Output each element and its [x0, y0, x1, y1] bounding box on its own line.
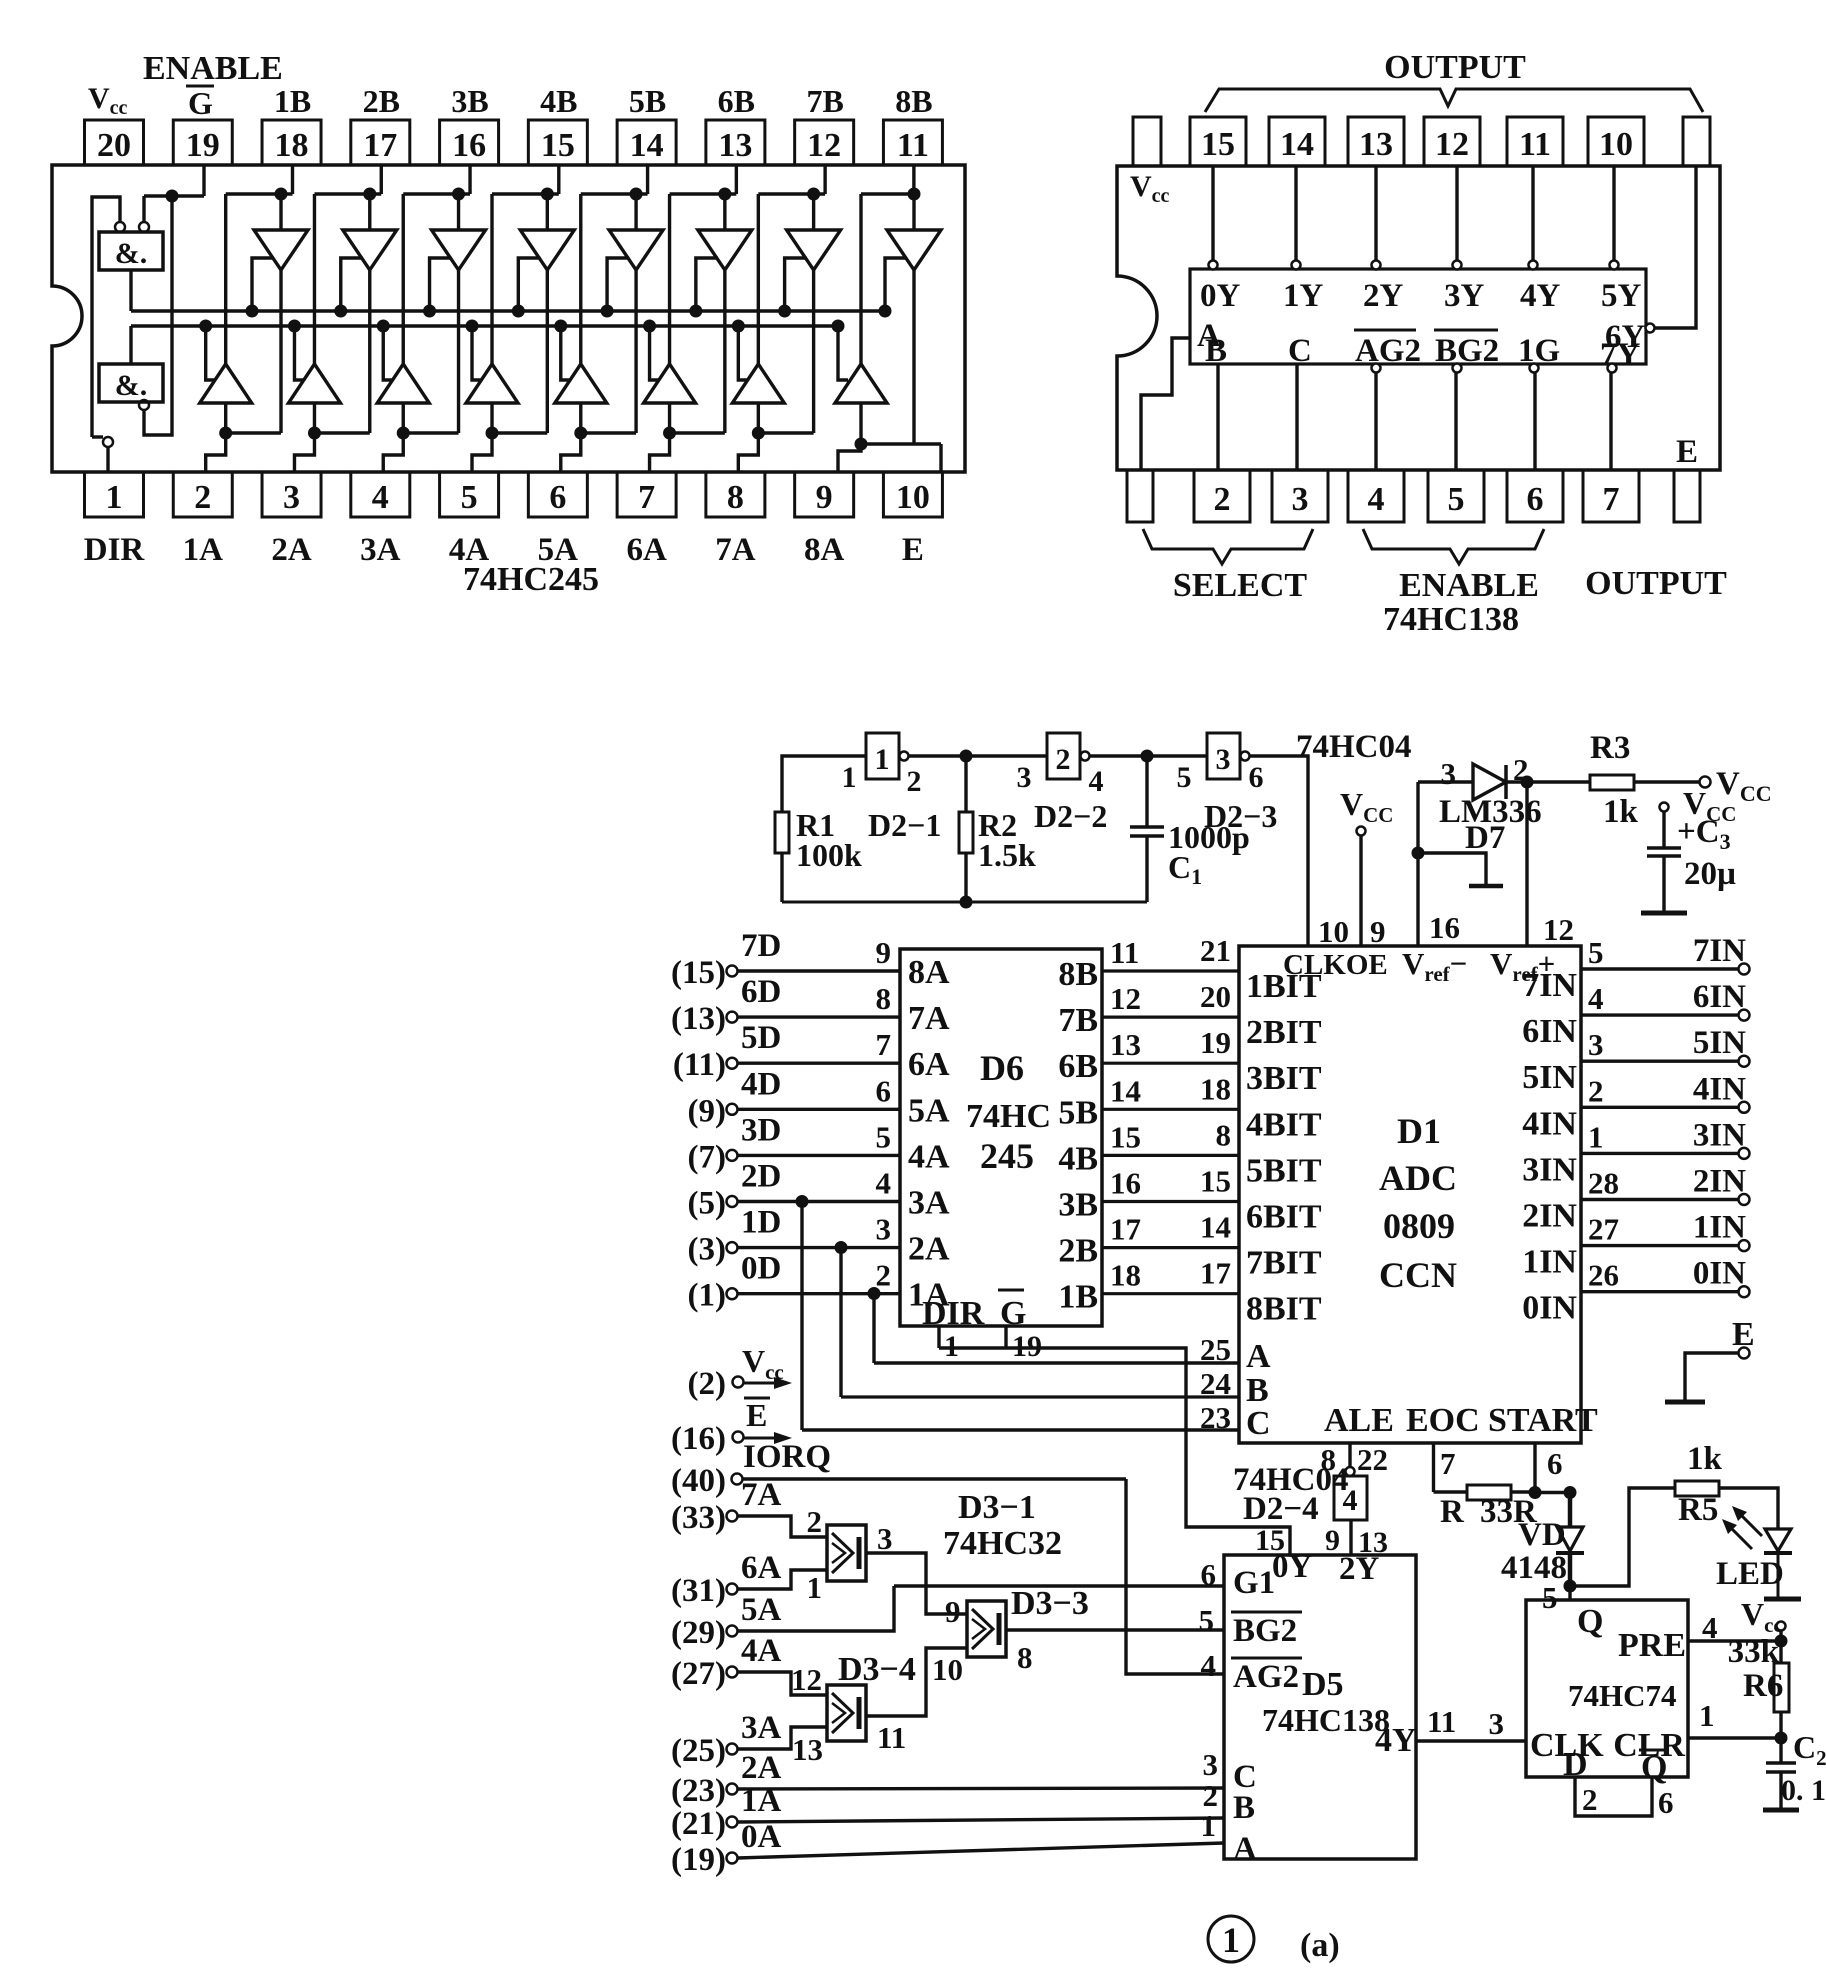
bubble output 5Y: [1610, 261, 1619, 270]
svg-text:5: 5: [1199, 1603, 1215, 1638]
bubble lower AND bottom input: [139, 400, 149, 410]
buffer A-to-B triangle cell 1: [224, 194, 227, 364]
svg-text:33k: 33k: [1728, 1634, 1780, 1670]
buffer B-to-A triangle cell 5: [634, 194, 637, 230]
svg-text:2: 2: [1214, 481, 1231, 518]
wire D5 BG2 pin 5 from D3-3: [1007, 1628, 1224, 1632]
svg-text:1k: 1k: [1603, 794, 1639, 830]
svg-text:13: 13: [718, 127, 752, 164]
wire ADC A pin 25 to 0D: [874, 1361, 1239, 1364]
node A junction cell 2: [308, 427, 321, 440]
node 2D junction: [796, 1195, 809, 1208]
wire lower AND to enable bus 2: [129, 326, 132, 364]
terminal (5) data line 2D: [727, 1196, 738, 1207]
74HC138 top pin stub 9: [1683, 117, 1710, 166]
svg-text:Q: Q: [1577, 1603, 1603, 1640]
wire bottom buffer enable stub cell 6: [650, 326, 660, 380]
wire G-bar to upper AND gate bubble: [142, 196, 145, 222]
svg-text:7: 7: [638, 479, 655, 516]
brace ENABLE pins 4-6: [1363, 529, 1544, 564]
svg-text:5A: 5A: [741, 1592, 782, 1628]
74HC138 bottom pin box 4: [1348, 470, 1404, 522]
svg-text:8B: 8B: [895, 83, 932, 119]
svg-text:16: 16: [1110, 1166, 1141, 1201]
svg-text:11: 11: [1427, 1704, 1456, 1739]
inverter D2-1 (74HC04 gate 1): [866, 733, 899, 779]
svg-text:74HC: 74HC: [966, 1098, 1051, 1135]
wire PRE pin 4: [1688, 1639, 1781, 1642]
svg-text:5: 5: [876, 1119, 892, 1154]
resistor R5 1k: [1675, 1481, 1719, 1496]
svg-text:DIR: DIR: [84, 532, 146, 568]
svg-text:1Y: 1Y: [1283, 278, 1324, 314]
node bottom rail R2 junction: [960, 896, 973, 909]
svg-text:18: 18: [1200, 1071, 1231, 1106]
terminal Vcc for C3: [1660, 803, 1669, 812]
svg-text:74HC32: 74HC32: [943, 1525, 1062, 1562]
wire output 4Y to pin: [1531, 166, 1534, 261]
wire D6 7B pin 12 to ADC pin 20: [1102, 1015, 1239, 1018]
wire oscillator bottom rail: [782, 901, 1147, 904]
wire 6D to D6 7A pin 8: [738, 1015, 901, 1018]
svg-text:5: 5: [1588, 935, 1604, 970]
svg-text:ADC: ADC: [1379, 1158, 1457, 1198]
svg-text:8A: 8A: [804, 532, 845, 568]
node 0D junction: [868, 1287, 881, 1300]
74HC138 bottom pin stub 1: [1127, 470, 1153, 522]
terminal (27) address line 4A: [727, 1667, 738, 1678]
wire top buffer output cell 4: [546, 270, 549, 433]
svg-text:3: 3: [876, 1212, 892, 1247]
svg-text:&.: &.: [115, 369, 148, 402]
svg-text:26: 26: [1588, 1258, 1619, 1293]
wire ADC 5IN pin 3 to terminal: [1581, 1059, 1739, 1062]
svg-text:(2): (2): [688, 1366, 726, 1402]
buffer A-to-B triangle cell 2: [313, 194, 316, 364]
svg-text:(29): (29): [671, 1615, 726, 1651]
svg-text:17: 17: [363, 127, 397, 164]
svg-text:4A: 4A: [741, 1633, 782, 1669]
svg-text:7A: 7A: [715, 532, 756, 568]
terminal (33) address line 7A: [727, 1511, 738, 1522]
wire B select to pin 2: [1216, 364, 1219, 470]
svg-text:5B: 5B: [1058, 1094, 1098, 1131]
node A junction cell 5: [574, 427, 587, 440]
bubble 7Y bottom: [1608, 364, 1617, 373]
terminal 2IN: [1739, 1194, 1750, 1205]
node A junction cell 4: [486, 427, 499, 440]
svg-text:0Y: 0Y: [1272, 1549, 1313, 1585]
svg-text:74HC245: 74HC245: [463, 561, 599, 598]
svg-text:4A: 4A: [908, 1138, 950, 1175]
resistor R1 100k: [775, 812, 789, 853]
svg-text:20: 20: [1200, 979, 1231, 1014]
terminal Vcc OE pin 9: [1357, 827, 1366, 836]
wire DIR chain left vertical: [92, 197, 120, 437]
svg-text:12: 12: [1110, 981, 1141, 1016]
wire top jog cell 5: [581, 192, 648, 195]
wire R5 to LED: [1719, 1488, 1778, 1529]
svg-text:5: 5: [1448, 481, 1465, 518]
svg-text:4: 4: [1368, 481, 1385, 518]
bubble D2-4 input: [1346, 1467, 1355, 1476]
svg-text:(15): (15): [671, 955, 726, 991]
node VD junction 2: [1564, 1486, 1577, 1499]
figure number 1 circled: [1208, 1916, 1254, 1962]
svg-text:1: 1: [875, 743, 890, 776]
svg-text:9: 9: [816, 479, 833, 516]
resistor R 33R: [1467, 1485, 1511, 1500]
wire ADC 4IN pin 2 to terminal: [1581, 1106, 1739, 1109]
svg-text:1A: 1A: [183, 532, 224, 568]
74HC245 top pin box 18: [262, 120, 321, 165]
wire D6 3B pin 16 to ADC pin 15: [1102, 1200, 1239, 1203]
svg-text:BG2: BG2: [1435, 333, 1499, 369]
wire bottom buffer enable stub cell 5: [561, 326, 571, 380]
svg-text:74HC04: 74HC04: [1296, 729, 1412, 765]
wire D5 AG2 pin 4 from IORQ: [1126, 1479, 1224, 1674]
brace SELECT pins 1-3: [1143, 529, 1313, 564]
svg-text:3A: 3A: [908, 1185, 950, 1222]
node A junction cell 3: [397, 427, 410, 440]
svg-text:74HC138: 74HC138: [1262, 1702, 1390, 1738]
svg-text:20µ: 20µ: [1684, 856, 1736, 892]
svg-text:10: 10: [896, 479, 930, 516]
svg-text:7: 7: [1440, 1446, 1456, 1481]
wire junction link: [1535, 1491, 1570, 1494]
74HC245 bottom pin box 3: [262, 472, 321, 517]
svg-text:2A: 2A: [741, 1750, 782, 1786]
svg-text:5IN: 5IN: [1522, 1059, 1577, 1096]
svg-text:2: 2: [907, 765, 922, 798]
OR gate D3-4 74HC32: [827, 1685, 866, 1741]
wire G-bar pin 19 stub: [1004, 1326, 1007, 1348]
svg-text:(23): (23): [671, 1773, 726, 1809]
buffer B-to-A triangle cell 4: [546, 194, 549, 230]
wire B pin 13 drop cell 6: [735, 165, 738, 194]
svg-text:R: R: [1440, 1494, 1465, 1530]
svg-text:SELECT: SELECT: [1173, 567, 1307, 604]
terminal (19) address line 0A: [727, 1853, 738, 1864]
wire G-bar branch to lower AND gate: [144, 196, 172, 435]
svg-text:EOC: EOC: [1406, 1402, 1480, 1439]
svg-text:G: G: [1000, 1295, 1026, 1332]
svg-text:4B: 4B: [540, 83, 577, 119]
buffer A-to-B triangle cell 6: [668, 194, 671, 364]
terminal (21) address line 1A: [727, 1817, 738, 1828]
svg-text:2IN: 2IN: [1693, 1164, 1746, 1200]
svg-text:13: 13: [792, 1732, 823, 1767]
wire 4D to D6 5A pin 6: [738, 1108, 901, 1111]
svg-text:2A: 2A: [908, 1231, 950, 1268]
bubble output 3Y: [1453, 261, 1462, 270]
buffer B-to-A triangle cell 1: [279, 194, 282, 230]
wire bottom buffer enable stub cell 3: [383, 326, 393, 380]
74HC245 top pin box 14: [617, 120, 676, 165]
svg-text:(40): (40): [671, 1463, 726, 1499]
wire CLR pin 1: [1688, 1736, 1781, 1739]
svg-text:4: 4: [1588, 981, 1604, 1016]
svg-text:IORQ: IORQ: [743, 1439, 831, 1475]
wire top buffer enable stub cell 2: [341, 258, 363, 311]
node Q junction: [1564, 1580, 1577, 1593]
wire 3D to D6 4A pin 5: [738, 1154, 901, 1157]
svg-text:23: 23: [1200, 1400, 1231, 1435]
wire bottom buffer enable stub cell 1: [206, 326, 216, 380]
svg-text:PRE: PRE: [1618, 1627, 1686, 1664]
wire DIR pin 1 stub: [937, 1326, 940, 1348]
wire D2-1 output to D2-2 input: [908, 754, 1047, 757]
wire D6 8B pin 11 to ADC pin 21: [1102, 969, 1239, 972]
svg-text:12: 12: [1543, 912, 1574, 947]
wire top jog cell 7: [758, 192, 825, 195]
svg-text:14: 14: [630, 127, 664, 164]
svg-text:5: 5: [1542, 1580, 1558, 1615]
svg-text:1IN: 1IN: [1522, 1244, 1577, 1281]
svg-text:4BIT: 4BIT: [1246, 1106, 1322, 1143]
svg-text:10: 10: [1318, 914, 1349, 949]
wire D2-2 output to D2-3 input: [1089, 754, 1207, 757]
terminal (16) E-bar: [733, 1432, 744, 1443]
wire output 5Y to pin: [1612, 166, 1615, 261]
node B junction cell 2: [363, 188, 376, 201]
wire B pin 18 drop cell 1: [291, 165, 294, 194]
wire top buffer output cell 8: [912, 270, 915, 444]
svg-text:2IN: 2IN: [1522, 1198, 1577, 1235]
74HC138 top pin box 10: [1588, 117, 1644, 166]
svg-text:5B: 5B: [629, 83, 666, 119]
svg-text:(21): (21): [671, 1806, 726, 1842]
svg-text:D2−1: D2−1: [868, 807, 941, 843]
ground E: [1665, 1400, 1705, 1405]
svg-text:1G: 1G: [1518, 333, 1560, 369]
svg-text:8: 8: [1216, 1117, 1232, 1152]
svg-text:13: 13: [1110, 1027, 1141, 1062]
diode LM336 D7: [1418, 780, 1473, 783]
74HC138 top pin box 11: [1507, 117, 1563, 166]
svg-text:5Y: 5Y: [1601, 278, 1642, 314]
wire 5D to D6 6A pin 7: [738, 1061, 901, 1064]
svg-text:3B: 3B: [1058, 1187, 1098, 1224]
svg-text:17: 17: [1110, 1212, 1141, 1247]
svg-text:2Y: 2Y: [1363, 278, 1404, 314]
wire top jog cell 4: [492, 192, 559, 195]
inverter D2-4 (74HC04 gate 4): [1334, 1476, 1367, 1520]
wire B pin 15 drop cell 4: [557, 165, 560, 194]
ground D7: [1469, 884, 1503, 889]
svg-text:14: 14: [1200, 1210, 1231, 1245]
svg-text:(7): (7): [688, 1139, 726, 1175]
svg-text:ALE: ALE: [1324, 1402, 1394, 1439]
node B junction cell 3: [452, 188, 465, 201]
wire top buffer output cell 5: [634, 270, 637, 433]
svg-text:27: 27: [1588, 1212, 1619, 1247]
wire C1 top stem: [1145, 756, 1148, 827]
wire top buffer enable stub cell 4: [518, 258, 540, 311]
node B junction cell 1: [275, 188, 288, 201]
svg-text:2: 2: [807, 1504, 823, 1539]
bubble output 4Y: [1529, 261, 1538, 270]
node Vref+ junction: [1521, 776, 1534, 789]
wire ADC 2IN pin 28 to terminal: [1581, 1198, 1739, 1201]
svg-text:8A: 8A: [908, 954, 950, 991]
wire D5 C pin 3 from 2A: [738, 1788, 1225, 1789]
svg-text:C: C: [1288, 333, 1312, 369]
svg-text:0IN: 0IN: [1693, 1256, 1746, 1292]
svg-text:2D: 2D: [741, 1159, 781, 1195]
terminal (40) IORQ: [732, 1474, 743, 1485]
svg-text:A: A: [1233, 1831, 1257, 1867]
svg-text:3: 3: [1588, 1027, 1604, 1062]
svg-text:G: G: [188, 85, 213, 121]
wire 6Y to pin 9 stub: [1654, 166, 1696, 328]
node PRE junction: [1775, 1635, 1788, 1648]
wire top buffer output cell 7: [812, 270, 815, 433]
wire top buffer enable stub cell 6: [696, 258, 718, 311]
74HC245 bottom pin box 7: [617, 472, 676, 517]
svg-text:11: 11: [1110, 935, 1139, 970]
wire top buffer output cell 1: [279, 270, 282, 433]
svg-text:17: 17: [1200, 1256, 1231, 1291]
terminal 1IN: [1739, 1240, 1750, 1251]
wire oscillator top rail left: [782, 756, 866, 812]
svg-text:(25): (25): [671, 1733, 726, 1769]
node B junction cell 7: [807, 188, 820, 201]
svg-text:7D: 7D: [741, 928, 781, 964]
svg-text:D1: D1: [1397, 1111, 1441, 1151]
svg-text:0IN: 0IN: [1522, 1290, 1577, 1327]
svg-text:6A: 6A: [908, 1046, 950, 1083]
wire top buffer enable stub cell 1: [252, 258, 274, 311]
svg-text:3: 3: [1017, 761, 1032, 794]
svg-text:6: 6: [1547, 1446, 1563, 1481]
terminal 3IN: [1739, 1148, 1750, 1159]
wire A pin 2 jog cell 1: [224, 403, 227, 433]
wire D5 A pin 1 from 0A: [738, 1843, 1225, 1858]
wire DIR pin1 riser: [92, 435, 103, 438]
wire top jog cell 8: [861, 192, 914, 195]
wire bottom buffer enable stub cell 2: [294, 326, 304, 380]
capacitor C1 1000p: [1130, 825, 1164, 829]
bubble 1G bottom: [1530, 364, 1539, 373]
svg-text:8: 8: [727, 479, 744, 516]
74HC245 top pin box 15: [528, 120, 587, 165]
svg-text:6D: 6D: [741, 974, 781, 1010]
terminal 4IN: [1739, 1102, 1750, 1113]
wire B pin 11 drop cell 8: [912, 165, 915, 194]
wire 1G to bottom pin: [1533, 372, 1536, 470]
svg-text:5: 5: [1177, 761, 1192, 794]
node 1D junction: [835, 1241, 848, 1254]
node B junction cell 5: [630, 188, 643, 201]
svg-text:AG2: AG2: [1233, 1659, 1299, 1695]
wire R2 bottom: [964, 853, 967, 902]
buffer B-to-A triangle cell 8: [912, 194, 915, 230]
74HC245 bottom pin box 8: [706, 472, 765, 517]
wire top buffer enable stub cell 7: [785, 258, 807, 311]
svg-text:E: E: [746, 1397, 767, 1433]
svg-text:5: 5: [461, 479, 478, 516]
wire C select to pin 3: [1295, 364, 1298, 470]
terminal (15) data line 7D: [727, 966, 738, 977]
svg-text:7: 7: [876, 1027, 892, 1062]
wire D6 1B pin 18 to ADC pin 17: [1102, 1292, 1239, 1295]
wire ADC 6IN pin 4 to terminal: [1581, 1013, 1739, 1016]
wire top buffer output cell 2: [368, 270, 371, 433]
svg-text:D2−3: D2−3: [1204, 798, 1277, 834]
74HC138 top pin box 14: [1269, 117, 1325, 166]
svg-text:2: 2: [1588, 1073, 1604, 1108]
svg-text:8: 8: [1017, 1640, 1033, 1675]
svg-text:ENABLE: ENABLE: [1399, 567, 1539, 604]
wire output 1Y to pin: [1294, 166, 1297, 261]
svg-text:5IN: 5IN: [1693, 1025, 1746, 1061]
node A junction cell 6: [663, 427, 676, 440]
bubble upper AND right input: [139, 222, 149, 232]
svg-text:(16): (16): [671, 1421, 726, 1457]
node EOC-START junction 1: [1529, 1486, 1542, 1499]
74HC138 top pin stub 16: [1133, 117, 1161, 166]
wire D5 G1 pin 6 from 5A: [894, 1584, 1224, 1587]
terminal (31) address line 6A: [727, 1584, 738, 1595]
wire A pin 8 jog cell 7: [757, 403, 760, 433]
svg-text:3: 3: [877, 1521, 893, 1556]
buffer A-to-B triangle cell 8: [859, 194, 862, 364]
svg-text:D7: D7: [1465, 820, 1505, 856]
wire D7 ground branch: [1418, 853, 1486, 884]
wire ADC 1IN pin 27 to terminal: [1581, 1244, 1739, 1247]
wire D3-4 output pin 11 to D3-3 pin 10: [866, 1648, 967, 1716]
LED diode: [1765, 1529, 1791, 1551]
wire upper AND output to enable bus 1: [129, 270, 132, 311]
svg-text:3: 3: [1203, 1747, 1219, 1782]
svg-text:3A: 3A: [741, 1710, 782, 1746]
svg-text:1: 1: [1222, 1920, 1240, 1960]
wire EOC pin 7 drop: [1432, 1443, 1435, 1492]
svg-text:BG2: BG2: [1233, 1613, 1297, 1649]
wire 1D to D6 2A pin 3: [738, 1246, 901, 1249]
svg-text:START: START: [1488, 1402, 1598, 1439]
svg-text:9: 9: [945, 1594, 961, 1629]
buffer B-to-A triangle cell 2: [368, 194, 371, 230]
svg-text:1: 1: [807, 1570, 823, 1605]
74HC138 bottom pin stub 8: [1674, 470, 1700, 522]
inverter D2-3 (74HC04 gate 3): [1207, 733, 1240, 779]
74HC245 top pin box 12: [795, 120, 854, 165]
resistor R3 1k: [1590, 775, 1634, 790]
svg-text:3B: 3B: [451, 83, 488, 119]
svg-text:E: E: [1676, 434, 1698, 470]
74HC245 top pin box 11: [883, 120, 942, 165]
svg-text:6: 6: [1249, 761, 1264, 794]
node G-bar branch junction: [166, 190, 179, 203]
bubble output 0Y: [1209, 261, 1218, 270]
wire 7D to D6 8A pin 9: [738, 969, 901, 972]
node A junction cell 8: [855, 438, 868, 451]
bubble 6Y right: [1646, 324, 1655, 333]
wire Q node to R5: [1570, 1488, 1675, 1586]
node B junction cell 4: [541, 188, 554, 201]
wire IORQ to AG2 vertical: [743, 1477, 1127, 1480]
wire 6A to D3-1 pin 1: [738, 1570, 828, 1589]
wire E terminal to ground: [1685, 1353, 1739, 1400]
terminal (2) Vcc: [733, 1377, 744, 1388]
svg-text:6BIT: 6BIT: [1246, 1199, 1322, 1236]
svg-text:1BIT: 1BIT: [1246, 968, 1322, 1005]
node A junction cell 7: [752, 427, 765, 440]
svg-text:16: 16: [452, 127, 486, 164]
svg-text:6: 6: [1658, 1785, 1674, 1820]
